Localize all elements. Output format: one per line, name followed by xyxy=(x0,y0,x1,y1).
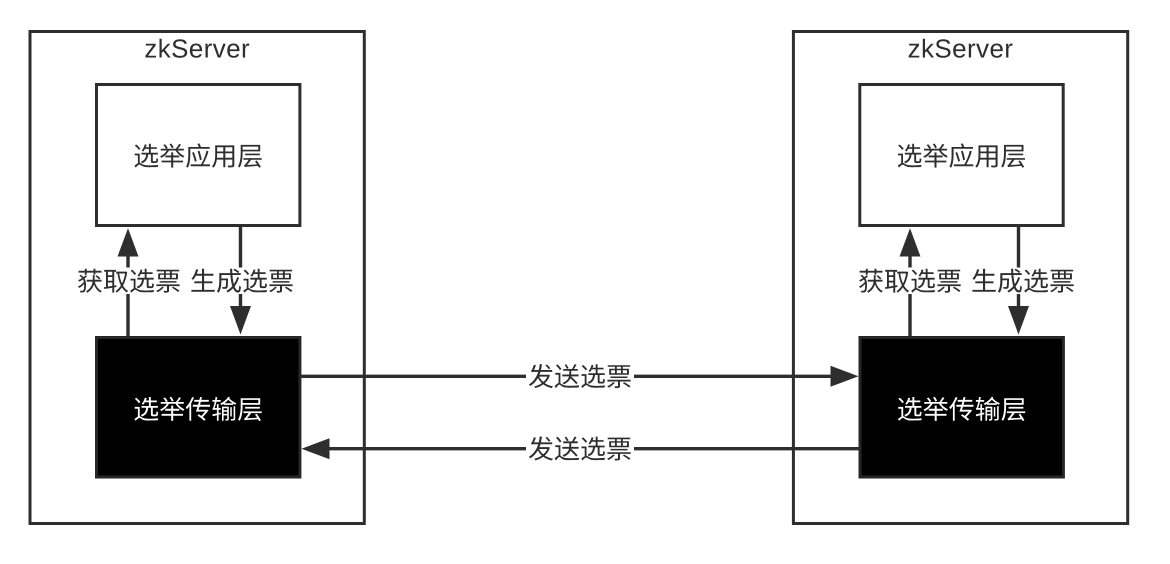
label 选举传输层 (right) xyxy=(898,397,1025,421)
arrow down 生成选票 (left) : 选举应用层 to 选举传输层 xyxy=(239,226,242,308)
wire 发送选票 (left to right) xyxy=(300,375,831,378)
label background 发送选票 (top wire) xyxy=(526,364,634,390)
outer box zkServer (left) xyxy=(30,32,364,524)
label 获取选票 (left) xyxy=(78,269,180,293)
wire 发送选票 (right to left) xyxy=(329,447,860,450)
arrow down 生成选票 (right) : 选举应用层 to 选举传输层 xyxy=(1017,226,1020,308)
box 选举应用层 (right) xyxy=(860,85,1063,226)
label background 获取选票 生成选票 (right) xyxy=(857,268,1075,295)
box 选举应用层 (left) xyxy=(97,85,300,226)
label background 获取选票 生成选票 (left) xyxy=(76,268,294,295)
outer box zkServer (right) xyxy=(793,32,1127,524)
box 选举传输层 (left) xyxy=(97,338,300,478)
label 发送选票 (bottom wire) xyxy=(529,436,631,460)
label background 发送选票 (bottom wire) xyxy=(526,436,634,462)
arrow up 获取选票 (right) : 选举传输层 to 选举应用层 xyxy=(908,255,911,338)
label zkServer (right) xyxy=(909,39,1013,58)
label 选举应用层 (left) xyxy=(134,143,261,167)
label 生成选票 (right) xyxy=(972,269,1073,293)
box 选举传输层 (right) xyxy=(860,338,1063,478)
label 选举应用层 (right) xyxy=(898,143,1025,167)
label 发送选票 (top wire) xyxy=(529,364,631,388)
label 选举传输层 (left) xyxy=(134,397,261,421)
arrow up 获取选票 (left) : 选举传输层 to 选举应用层 xyxy=(126,255,129,338)
label 生成选票 (left) xyxy=(191,269,292,293)
label 获取选票 (right) xyxy=(859,269,961,293)
label zkServer (left) xyxy=(145,39,249,58)
